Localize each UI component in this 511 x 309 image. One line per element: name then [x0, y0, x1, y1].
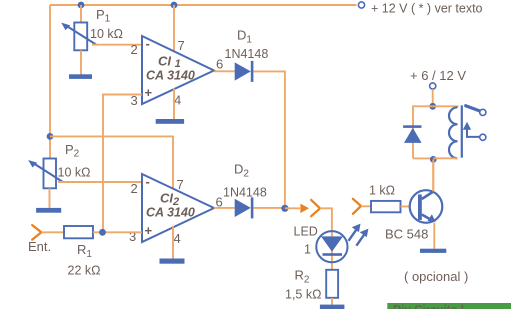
op-amp CI1 — [142, 36, 214, 104]
diode flyback — [403, 125, 422, 143]
wire P1 wiper to CI1 pin2 — [92, 44, 142, 46]
svg-text:6: 6 — [216, 57, 223, 72]
wire D2 to junction — [253, 207, 285, 209]
svg-text:2: 2 — [131, 181, 138, 196]
node P1 top junction — [78, 2, 85, 9]
svg-text:+ 12 V ( * ) ver texto: + 12 V ( * ) ver texto — [371, 2, 483, 16]
wire CI2 pin4 to ground — [172, 226, 174, 259]
wire +12V top rail — [50, 4, 357, 6]
wire P2 wiper to CI2 pin2 — [58, 181, 142, 183]
svg-text:Div Circuito l: Div Circuito l — [393, 305, 464, 309]
wire Ent to R1 — [41, 231, 64, 233]
wire relay to collector — [432, 159, 434, 190]
wire relay bottom left branch — [413, 157, 433, 159]
relay core bar — [461, 105, 463, 157]
svg-text:22 kΩ: 22 kΩ — [68, 264, 101, 278]
wire D1 to junction — [253, 71, 285, 208]
resistor R1 — [64, 226, 93, 238]
node relay bottom — [430, 156, 437, 163]
svg-text:4: 4 — [174, 93, 181, 108]
LED 1 — [316, 231, 347, 262]
svg-text:1,5 kΩ: 1,5 kΩ — [285, 288, 321, 302]
wire terminal down — [432, 89, 434, 106]
wire collector to relay — [432, 159, 434, 191]
svg-text:10 kΩ: 10 kΩ — [90, 27, 123, 41]
wire CI1 output — [214, 70, 235, 72]
svg-text:R1: R1 — [77, 242, 92, 260]
node relay top — [429, 103, 436, 110]
relay contact lever — [466, 106, 480, 111]
svg-text:+: + — [145, 223, 153, 238]
wire R2 to ground — [331, 298, 333, 305]
terminal +6/12V open circle — [430, 83, 436, 89]
node CI1 pin7 junction — [171, 2, 178, 9]
ground Q1 — [420, 249, 446, 253]
svg-text:D1: D1 — [237, 28, 252, 46]
wire CI2 output — [214, 207, 235, 209]
arrow solid output — [300, 204, 309, 214]
svg-text:CA 3140: CA 3140 — [146, 206, 195, 220]
wire relay top left branch — [413, 106, 433, 158]
svg-text:7: 7 — [178, 38, 185, 53]
svg-text:1N4148: 1N4148 — [225, 47, 269, 61]
wire CI1 pin4 to ground — [173, 89, 175, 120]
diode D2 — [235, 197, 254, 218]
svg-text:P1: P1 — [96, 7, 111, 25]
wire P2 bottom — [49, 188, 51, 208]
ground CI1 — [156, 119, 184, 124]
potentiometer P2 arrow — [28, 160, 62, 182]
wire emitter to ground — [433, 223, 435, 249]
ground CI2 — [160, 259, 185, 264]
potentiometer P1 arrow — [61, 23, 96, 45]
svg-text:( opcional ): ( opcional ) — [404, 269, 468, 284]
wire left vertical +12V — [49, 5, 51, 159]
resistor 1k — [371, 201, 401, 212]
svg-text:CA 3140: CA 3140 — [146, 69, 195, 83]
wire to LED branch — [320, 208, 332, 231]
svg-text:-: - — [146, 36, 150, 51]
ground P2 — [36, 208, 61, 213]
svg-text:10 kΩ: 10 kΩ — [58, 166, 91, 180]
arrow chevron output — [311, 200, 320, 216]
svg-text:-: - — [146, 174, 150, 189]
node output junction — [281, 205, 288, 212]
svg-text:R2: R2 — [295, 268, 310, 286]
svg-text:1N4148: 1N4148 — [223, 186, 267, 200]
wire junction to arrows — [285, 207, 300, 209]
terminal +12V open circle — [358, 2, 364, 8]
wire P1 top — [80, 5, 82, 23]
arrow chevron base — [353, 199, 361, 214]
svg-text:Ent.: Ent. — [28, 239, 51, 254]
wire relay coil bottom — [433, 157, 457, 159]
potentiometer P1 body — [74, 23, 87, 51]
wire R to base — [401, 206, 411, 208]
wire chevron to R base — [361, 205, 371, 207]
wire relay coil top — [433, 106, 458, 107]
diode D1 — [235, 61, 254, 82]
LED emission arrows — [349, 224, 369, 246]
svg-text:D2: D2 — [234, 162, 249, 180]
svg-text:BC 548: BC 548 — [385, 227, 428, 242]
resistor R2 — [326, 270, 338, 298]
relay contact NO circle — [480, 109, 486, 115]
svg-text:2: 2 — [131, 42, 138, 57]
op-amp CI2 — [142, 174, 214, 242]
svg-text:+ 6 / 12 V: + 6 / 12 V — [410, 68, 466, 83]
ground P1 — [69, 74, 92, 79]
svg-text:1: 1 — [304, 243, 311, 257]
potentiometer P2 body — [44, 159, 57, 189]
svg-text:4: 4 — [174, 231, 181, 246]
input chevron Ent. — [32, 225, 41, 240]
relay pole circle — [480, 134, 486, 140]
svg-text:P2: P2 — [65, 142, 80, 160]
relay pole arrow — [463, 122, 480, 137]
svg-text:1 kΩ: 1 kΩ — [369, 184, 395, 198]
wire R1 to CI2 pin3 — [93, 231, 142, 233]
svg-text:3: 3 — [129, 229, 136, 244]
wire through LED — [331, 231, 333, 270]
ground R2 — [320, 305, 345, 309]
relay coil K1 — [449, 107, 458, 158]
transistor Q1 BC548 — [410, 190, 443, 223]
wire +12V branch to CI2 pin7 — [50, 136, 173, 188]
green banner — [387, 303, 511, 309]
wire P1 bottom — [80, 50, 82, 74]
node P2 branch junction — [47, 133, 54, 140]
wire CI1 pin7 — [173, 5, 175, 52]
node R1 junction — [99, 229, 106, 236]
svg-text:+: + — [145, 85, 153, 100]
wire CI1 pin3 — [103, 95, 142, 233]
svg-text:LED: LED — [294, 225, 318, 239]
